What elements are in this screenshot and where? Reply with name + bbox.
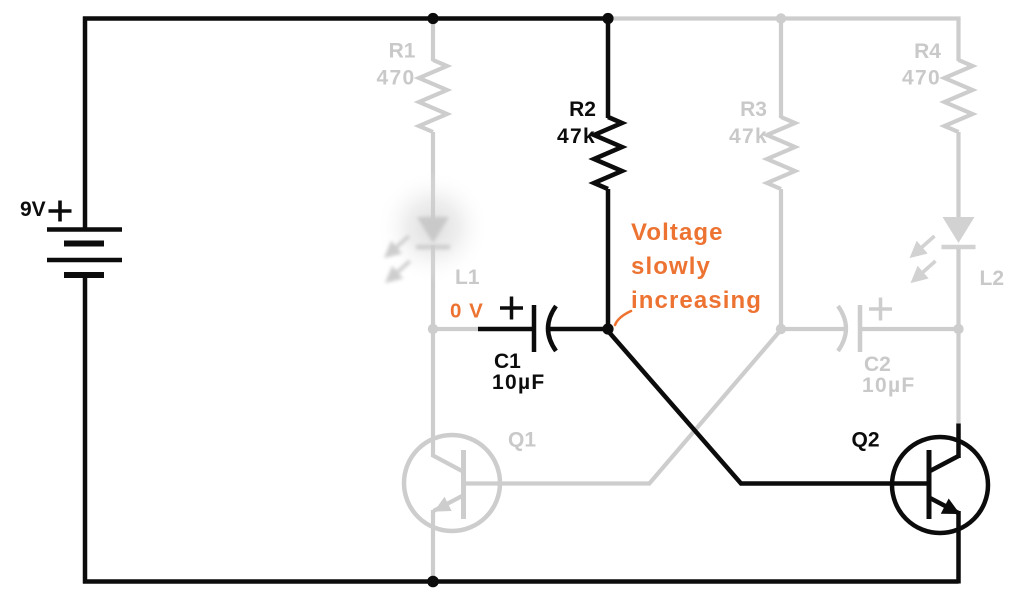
resistor R3 zigzag: [767, 117, 795, 189]
svg-text:10µF: 10µF: [492, 371, 546, 394]
orange annotations: [450, 300, 484, 323]
capacitor C1 straight plate: [532, 305, 537, 352]
wire: node A down to Q1 collector: [431, 329, 435, 457]
svg-text:increasing: increasing: [631, 287, 762, 314]
junction node D (L2 / C2 / Q2 collector): [953, 324, 963, 334]
wire: cross-coupling diagonal Q1 base to node C: [649, 329, 783, 485]
svg-text:R4: R4: [914, 40, 941, 63]
svg-text:10µF: 10µF: [862, 374, 916, 397]
wire: Q1 base horizontal: [464, 481, 650, 485]
wire: C1 right lead to node E: [547, 327, 608, 332]
LED L1 anode triangle: [417, 217, 449, 243]
wire: top rail gray segment from node B to top-right corner: [610, 19, 959, 21]
wire: bottom rail: [83, 579, 959, 584]
wire: cross-coupling diagonal node E to Q2 base: [608, 331, 930, 484]
black labels: [20, 98, 880, 452]
transistor Q2 emitter arrowhead: [942, 500, 958, 513]
svg-text:C1: C1: [494, 350, 521, 373]
transistor Q2 emitter diagonal: [930, 498, 959, 513]
LED L2 anode triangle: [943, 217, 975, 243]
LED L1 glow halo: [376, 170, 490, 284]
wire: node C to C2 curved plate: [781, 327, 846, 331]
transistor Q2 collector diagonal: [930, 456, 959, 471]
svg-text:0 V: 0 V: [450, 300, 484, 323]
transistor Q1 collector diagonal: [433, 456, 463, 472]
LED L1 (triangle, cathode bar, light arrows): [387, 217, 450, 281]
resistor R1 zigzag: [419, 60, 447, 132]
C2 plus sign: [869, 298, 892, 321]
wire: R3 top lead from top rail: [779, 19, 783, 119]
wire: Q2 emitter down to bottom rail: [956, 511, 961, 584]
svg-text:R2: R2: [569, 98, 596, 121]
svg-text:slowly: slowly: [631, 253, 711, 280]
svg-text:L1: L1: [455, 266, 480, 289]
transistor Q2 base bar: [927, 450, 932, 519]
LED L1 cathode bar: [416, 245, 450, 250]
wire: R1 bottom to LED L1 anode: [431, 132, 435, 219]
transistor Q1 emitter diagonal: [434, 496, 464, 512]
svg-text:47k: 47k: [557, 125, 596, 148]
LED L2 emitted-light arrows: [913, 236, 936, 281]
wire: R4 top lead down from corner: [956, 19, 960, 62]
wire: R3 bottom lead down to node C: [779, 189, 783, 329]
svg-text:9V: 9V: [20, 198, 46, 221]
svg-text:470: 470: [902, 67, 941, 90]
wire: R4 bottom to LED L2 anode: [956, 132, 960, 219]
wire: L2 cathode down to node D: [956, 245, 960, 329]
wire: Q1 emitter down to bottom rail: [431, 510, 435, 582]
wire: L1 cathode down to node A: [431, 245, 435, 329]
junction node B: top rail / R2 (black dot): [602, 13, 613, 24]
transistor Q1 base bar: [461, 450, 466, 519]
annotation arrow swoosh to node E: [615, 311, 631, 325]
svg-text:47k: 47k: [729, 125, 768, 148]
svg-text:Voltage: Voltage: [631, 219, 724, 246]
junction node: top rail / R1 (black dot): [427, 13, 438, 24]
wire: R2 bottom lead down to node E: [606, 189, 611, 329]
junction node E: R2 / C1 / Q2 base (black dot): [602, 323, 613, 334]
battery B1 9V plates: [47, 230, 122, 276]
capacitor C2 curved plate: [838, 306, 846, 351]
svg-text:R1: R1: [389, 40, 416, 63]
svg-text:L2: L2: [980, 267, 1005, 290]
C1 plus sign: [500, 297, 523, 320]
LED L2 cathode bar: [942, 245, 976, 250]
LED L1 emitted-light arrows: [387, 236, 410, 281]
svg-text:Q1: Q1: [508, 429, 536, 452]
junction node C (R3 / C2 / Q1 base): [776, 324, 786, 334]
wire: top rail black from battery + to node B: [83, 16, 610, 21]
battery plus sign: [49, 201, 72, 222]
transistor Q1 emitter arrowhead: [436, 498, 451, 511]
wire: battery negative lead down: [83, 275, 88, 584]
svg-text:Q2: Q2: [852, 429, 880, 452]
gray labels: [377, 40, 1004, 452]
junction node: top rail / R3: [776, 13, 786, 23]
junction node A (L1 / C1 / Q1 collector): [428, 324, 438, 334]
svg-text:470: 470: [377, 67, 416, 90]
wire: Q2 collector vertical (black part up to node D side): [956, 424, 961, 459]
capacitor C2 straight plate: [858, 305, 863, 352]
wire: R1 top lead from top rail: [431, 19, 435, 62]
wire: battery positive lead: [83, 17, 88, 231]
wire: C1 left lead (black part): [478, 327, 534, 332]
junction node: bottom rail / Q1 emitter (black dot): [427, 576, 439, 588]
wire: node A to C1 left lead (gray part): [433, 327, 479, 331]
resistor R4 zigzag: [945, 60, 973, 132]
wire: C2 right lead to node D: [860, 327, 959, 331]
wire: R2 top lead from node B: [606, 17, 611, 119]
svg-text:R3: R3: [740, 98, 767, 121]
capacitor C1 curved plate: [548, 306, 556, 351]
transistor Q1 circle: [404, 435, 500, 531]
wire: node D down to Q2 collector (gray part): [956, 329, 960, 424]
resistor R2 zigzag: [594, 117, 622, 189]
LED L2 (triangle, cathode bar, light arrows): [913, 217, 976, 281]
transistor Q2 circle: [892, 437, 988, 533]
svg-text:C2: C2: [864, 353, 891, 376]
